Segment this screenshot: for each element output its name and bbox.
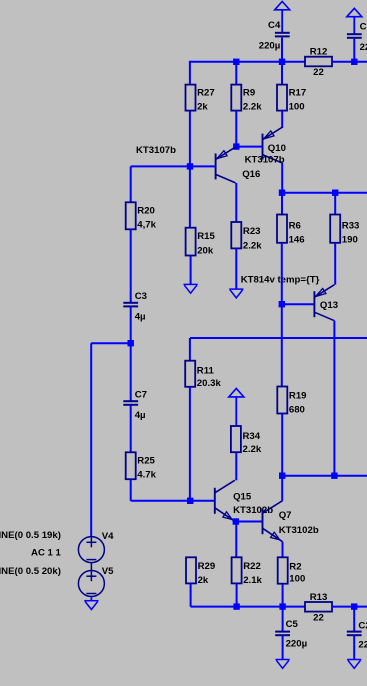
capacitor C2	[347, 620, 367, 650]
resistor R34	[231, 426, 262, 455]
resistor R15	[186, 228, 216, 257]
svg-text:SINE(0 0.5 20k): SINE(0 0.5 20k)	[0, 566, 61, 577]
svg-text:Q13: Q13	[320, 300, 338, 311]
svg-text:2.2k: 2.2k	[243, 241, 262, 252]
wire down to C2	[353, 607, 355, 632]
svg-text:R19: R19	[289, 390, 307, 401]
node Q10 base junction	[233, 143, 239, 149]
wire bottom rail left segment	[191, 606, 306, 608]
wire rail y475	[282, 475, 367, 477]
svg-text:KT3107b: KT3107b	[245, 154, 285, 165]
wire C5 to ground	[282, 635, 284, 659]
svg-text:22: 22	[313, 67, 324, 78]
svg-text:680: 680	[289, 405, 305, 416]
wire top rail down to R9	[235, 62, 237, 85]
wire junction left to V column	[91, 342, 131, 344]
svg-text:SINE(0 0.5 19k): SINE(0 0.5 19k)	[0, 530, 61, 541]
svg-text:Q10: Q10	[268, 143, 286, 154]
svg-text:C1: C1	[360, 22, 367, 33]
wire R23 to ground	[235, 248, 237, 289]
wire down V column	[90, 343, 92, 537]
wire Q10 collector down	[281, 163, 283, 193]
wire R22 down to bottom rail	[236, 583, 238, 606]
svg-text:2k: 2k	[198, 575, 209, 586]
wire rail y338	[190, 337, 367, 339]
transistor Q10	[263, 127, 283, 163]
wire corner right to Q15 base node	[131, 500, 191, 502]
svg-text:C7: C7	[135, 390, 147, 401]
wire rail corner down to R11	[189, 338, 191, 361]
svg-text:220µ: 220µ	[259, 41, 281, 52]
wire y475 node down to Q7 collector	[281, 476, 283, 501]
svg-text:4µ: 4µ	[135, 312, 146, 323]
wire R17 to Q10 emitter	[281, 111, 283, 128]
svg-text:R12: R12	[310, 47, 328, 58]
wire R34 down to Q15 collector	[235, 452, 237, 480]
svg-text:4µ: 4µ	[135, 410, 146, 421]
wire Q13 collector down	[333, 321, 335, 476]
ground under C5	[276, 660, 290, 669]
svg-text:100: 100	[289, 573, 305, 584]
svg-text:R27: R27	[197, 88, 215, 99]
ground under C2	[347, 660, 361, 669]
wire C3 bottom to junction	[130, 306, 132, 343]
node top rail at C1 column	[351, 59, 357, 65]
resistor R6	[277, 215, 305, 246]
wire top rail down to R17	[281, 62, 283, 85]
wire C7 down to R25	[130, 405, 132, 453]
resistor R20	[126, 202, 157, 230]
svg-text:Q16: Q16	[242, 169, 260, 180]
transistor Q16	[216, 147, 236, 183]
svg-text:KT3107b: KT3107b	[136, 145, 176, 156]
svg-text:V4: V4	[102, 531, 114, 542]
node bottom rail at R22	[233, 603, 239, 609]
svg-text:146: 146	[289, 235, 305, 246]
node Q16 base junction	[187, 163, 193, 169]
ground under V5	[84, 601, 98, 610]
resistor R25	[126, 452, 157, 480]
resistor R9	[231, 85, 262, 113]
svg-text:C2: C2	[358, 620, 367, 631]
svg-text:100: 100	[289, 102, 305, 113]
node top rail at C4 column	[279, 59, 285, 65]
node Q15 base junction	[187, 498, 193, 504]
svg-text:R29: R29	[198, 561, 216, 572]
wire Q7 emitter down to R2	[282, 542, 284, 558]
wire base node left to R20 column	[131, 165, 190, 167]
svg-text:2.1k: 2.1k	[243, 575, 262, 586]
svg-text:2k: 2k	[197, 102, 208, 113]
wire R6 down to Q13 base node	[281, 243, 283, 304]
wire Q15 emitter node to Q7 base	[236, 521, 263, 523]
power flag above C1	[347, 8, 362, 34]
wire C2 to ground	[353, 635, 355, 659]
svg-text:R13: R13	[310, 592, 328, 603]
svg-text:KT3102b: KT3102b	[279, 525, 319, 536]
wire V5 to ground	[90, 597, 92, 601]
voltage source V5	[78, 566, 114, 597]
power flag above R34	[229, 389, 244, 427]
node mid rail at R33	[332, 190, 338, 196]
wire top rail corner down to R27	[189, 61, 191, 85]
wire top rail right segment	[332, 61, 367, 63]
ground under R15	[184, 284, 198, 293]
resistor R23	[231, 222, 262, 252]
ground under R23	[229, 289, 243, 298]
wire R19 down to y475 node	[281, 414, 283, 476]
svg-text:KT814v temp={T}: KT814v temp={T}	[241, 275, 320, 286]
svg-text:R23: R23	[243, 226, 261, 237]
wire down to C5	[282, 607, 284, 632]
resistor R13	[305, 592, 332, 624]
resistor R22	[232, 557, 263, 586]
svg-text:220µ: 220µ	[286, 639, 308, 650]
transistor Q15	[215, 480, 235, 521]
wire down to R33	[334, 193, 336, 215]
svg-text:R17: R17	[289, 88, 307, 99]
svg-text:C4: C4	[268, 20, 281, 31]
svg-text:R6: R6	[289, 220, 301, 231]
wire junction down to C7	[130, 343, 132, 401]
wire Q16 base	[190, 165, 216, 167]
resistor R29	[186, 557, 215, 586]
svg-text:V5: V5	[102, 566, 114, 577]
svg-text:Q15: Q15	[233, 492, 252, 503]
resistor R19	[277, 387, 306, 416]
resistor R2	[278, 557, 306, 584]
resistor R27	[186, 85, 215, 113]
capacitor C4	[259, 20, 290, 52]
node Q13 base junction	[279, 301, 285, 307]
voltage source V4	[78, 531, 114, 563]
wire R9 down to Q10 base node	[235, 111, 237, 147]
svg-text:R33: R33	[342, 220, 360, 231]
svg-text:C3: C3	[135, 291, 147, 302]
resistor R17	[277, 85, 306, 113]
svg-text:R34: R34	[243, 431, 261, 442]
resistor R33	[330, 215, 359, 246]
svg-text:R11: R11	[197, 366, 215, 377]
node Q15 emitter junction	[233, 518, 239, 524]
wire C4 bottom to top rail	[281, 38, 283, 62]
svg-text:R15: R15	[197, 231, 215, 242]
wire R15 to ground	[190, 256, 192, 285]
wire Q15 base	[191, 500, 215, 502]
wire R33 down to Q13 emitter	[334, 243, 336, 285]
node bottom rail at C2	[351, 603, 357, 609]
svg-text:C5: C5	[286, 619, 299, 630]
svg-text:20k: 20k	[197, 246, 214, 257]
svg-text:220µ: 220µ	[360, 42, 367, 53]
wire base node down to R19	[281, 304, 283, 387]
node bottom rail at C5	[279, 603, 285, 609]
svg-text:190: 190	[342, 235, 358, 246]
wire between V4 and V5	[90, 563, 92, 571]
svg-text:2.2k: 2.2k	[243, 444, 262, 455]
wire R29 down to bottom rail	[190, 583, 192, 606]
wire C1 bottom to top rail	[353, 39, 355, 62]
svg-text:4.7k: 4.7k	[137, 469, 156, 480]
wire down to R6	[281, 193, 283, 215]
wire Q10 base	[236, 146, 262, 148]
power flag above C4	[275, 1, 290, 32]
wire Q13 base	[282, 303, 315, 305]
svg-text:R25: R25	[137, 455, 155, 466]
wire R2 down to bottom rail	[282, 584, 284, 607]
resistor R11	[185, 361, 221, 389]
svg-text:2.2k: 2.2k	[243, 102, 262, 113]
svg-text:AC 1 1: AC 1 1	[31, 548, 62, 559]
transistor Q7	[263, 501, 283, 542]
wire R11 down to Q15 base node	[189, 387, 191, 501]
node top rail at R9 column	[233, 59, 239, 65]
wire mid rail y192	[282, 192, 367, 194]
svg-text:20.3k: 20.3k	[197, 378, 222, 389]
node C3-C7 junction	[128, 340, 134, 346]
wire C3 top from R20	[130, 229, 132, 303]
svg-text:R9: R9	[243, 88, 255, 99]
node y475 at Q13 collector	[331, 473, 337, 479]
svg-text:R22: R22	[243, 561, 261, 572]
wire R25 down to corner	[130, 479, 132, 501]
wire Q16 collector down to R23	[235, 183, 237, 222]
wire top rail left segment	[190, 61, 305, 63]
svg-text:22: 22	[313, 612, 324, 623]
capacitor C7	[123, 390, 147, 422]
transistor Q13	[314, 285, 334, 321]
svg-text:R2: R2	[289, 562, 301, 573]
node y475 at R19	[279, 473, 285, 479]
svg-text:4,7k: 4,7k	[137, 219, 156, 230]
capacitor C1	[347, 22, 367, 53]
wire R27 down through base node to R15	[189, 111, 191, 228]
wire down to R20	[130, 166, 132, 202]
node mid rail at R6	[279, 190, 285, 196]
svg-text:Q7: Q7	[279, 510, 292, 521]
capacitor C3	[123, 291, 147, 322]
capacitor C5	[275, 619, 307, 650]
svg-text:R20: R20	[137, 205, 155, 216]
wire bottom rail right segment	[332, 606, 367, 608]
wire emitter node down to R22	[235, 522, 237, 558]
svg-text:220µ: 220µ	[358, 640, 367, 651]
resistor R12	[305, 47, 332, 79]
